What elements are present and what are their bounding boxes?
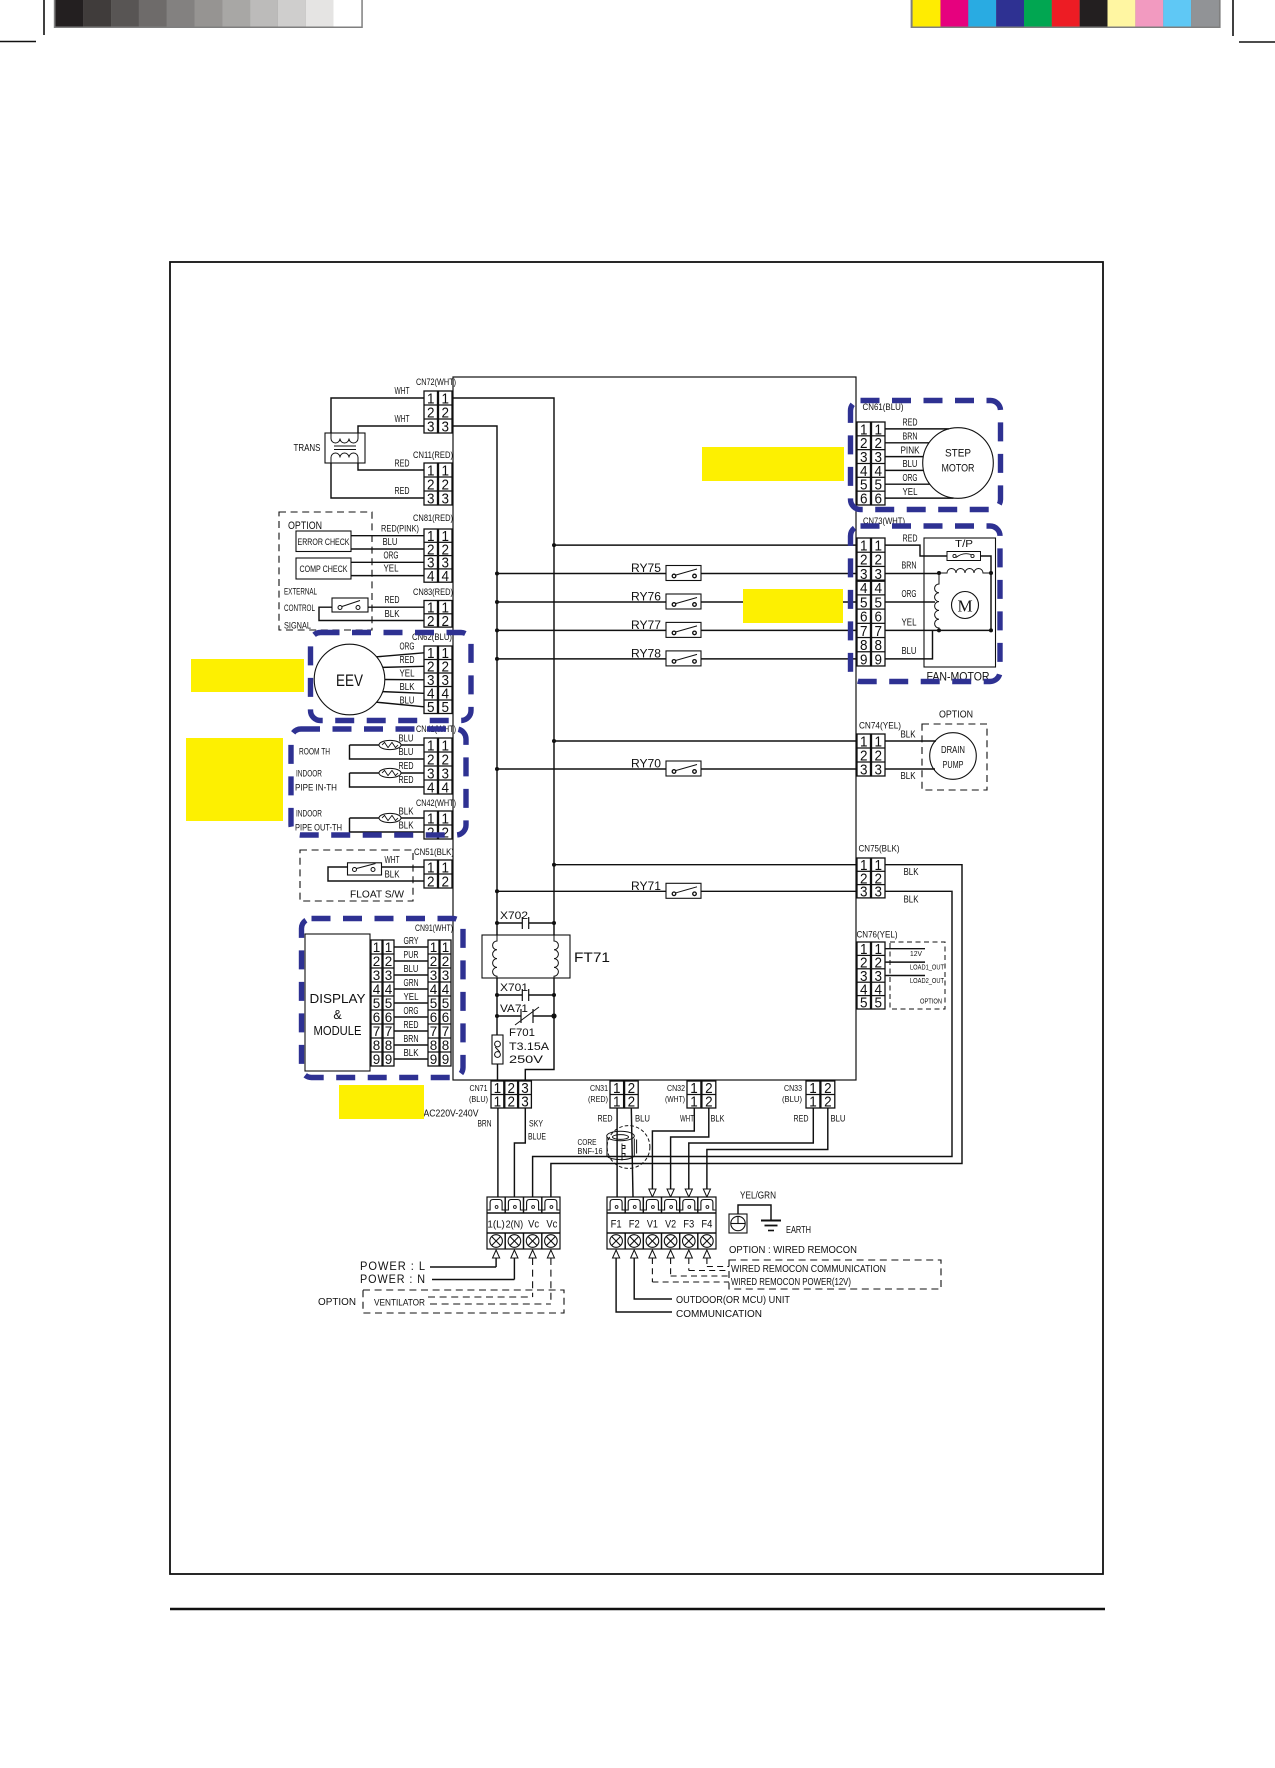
connector CN72 (416, 377, 456, 435)
svg-text:CN81(RED): CN81(RED) (413, 513, 453, 523)
label PUR display (404, 949, 419, 961)
svg-text:ERROR CHECK: ERROR CHECK (298, 537, 351, 547)
label OUTDOOR(OR MCU) UNIT (676, 1294, 791, 1306)
svg-text:FLOAT S/W: FLOAT S/W (350, 889, 404, 901)
component outline thermistors (blue dashed) (291, 729, 466, 835)
svg-text:RED: RED (395, 458, 410, 470)
fan motor main winding (937, 569, 993, 576)
label YEL CN81-4 (384, 563, 399, 575)
svg-text:RY70: RY70 (631, 759, 661, 771)
svg-text:OPTION: OPTION (318, 1296, 356, 1308)
svg-text:PUR: PUR (404, 949, 419, 961)
connector CN51 (414, 847, 454, 890)
wire display BLU (394, 974, 428, 976)
wire CN74-3 BLK to pump (885, 769, 935, 782)
svg-text:7: 7 (373, 1024, 381, 1039)
capacitor X701 (495, 982, 556, 1001)
label PIPE IN-TH (295, 783, 337, 793)
svg-text:CN61(BLU): CN61(BLU) (863, 402, 904, 412)
highlight yellow fan motor (743, 589, 843, 623)
wire display GRN (394, 988, 428, 990)
indoor unit PCB outline (453, 377, 856, 1080)
label RED CN11-1 (395, 458, 410, 470)
svg-text:2: 2 (442, 954, 450, 969)
label POWER : N (360, 1274, 426, 1286)
line filter FT71 (482, 935, 610, 978)
svg-text:BLU: BLU (831, 1114, 846, 1125)
svg-text:AC220V-240V: AC220V-240V (424, 1109, 479, 1120)
wire CN75-3 BLK to Vc3 (533, 891, 952, 1197)
label ORG display (404, 1005, 419, 1017)
svg-text:1: 1 (430, 940, 438, 955)
wire EEV to CN62-2 (383, 666, 424, 667)
label RED CN11-3 (395, 485, 410, 497)
label RED CN33 (794, 1114, 809, 1125)
block ERROR CHECK (296, 531, 351, 552)
DRAIN PUMP circle (930, 733, 977, 780)
svg-text:(BLU): (BLU) (782, 1094, 802, 1104)
svg-text:BLK: BLK (400, 681, 415, 693)
wire F3 remocon dashed (685, 1250, 729, 1271)
svg-text:(WHT): (WHT) (665, 1094, 685, 1104)
svg-text:CORE: CORE (578, 1138, 597, 1147)
wire CN61 PINK to step motor (885, 456, 923, 458)
svg-text:WHT: WHT (385, 854, 400, 866)
svg-text:BLU: BLU (902, 645, 917, 657)
component outline fan motor (blue dashed) (851, 526, 1001, 682)
label WIRED REMOCON POWER(12V) (731, 1276, 851, 1288)
svg-text:X702: X702 (500, 910, 528, 922)
svg-text:Vc: Vc (546, 1219, 557, 1231)
svg-text:CN42(WHT): CN42(WHT) (416, 798, 456, 808)
svg-text:(BLU): (BLU) (469, 1094, 488, 1104)
wire FT71 left leg down (496, 978, 498, 1035)
svg-text:M: M (957, 597, 972, 616)
svg-text:YEL: YEL (903, 486, 918, 498)
svg-text:4: 4 (373, 982, 381, 997)
svg-text:BLU: BLU (404, 963, 419, 975)
wire CN76-2 LOAD1_OUT (885, 961, 925, 963)
wire switch to CN83-1 (368, 606, 424, 608)
svg-text:3: 3 (860, 884, 868, 901)
label WHT CN51-1 (385, 854, 400, 866)
svg-text:EXTERNAL: EXTERNAL (284, 587, 317, 597)
svg-text:CN72(WHT): CN72(WHT) (416, 377, 456, 387)
thermistor ROOM TH loop (350, 740, 425, 759)
svg-text:2: 2 (385, 954, 393, 969)
wire CN61 YEL to step motor (885, 497, 954, 499)
svg-text:4: 4 (442, 982, 450, 997)
wire display GRY (394, 946, 428, 948)
wire EEV to CN62-4 (383, 692, 424, 694)
terminal block power 1(L) 2(N) Vc Vc (487, 1197, 560, 1249)
svg-text:3: 3 (427, 418, 435, 435)
svg-text:ORG: ORG (404, 1005, 419, 1017)
svg-text:VA71: VA71 (500, 1003, 528, 1015)
svg-text:ORG: ORG (902, 588, 917, 600)
svg-text:WIRED REMOCON COMMUNICATION: WIRED REMOCON COMMUNICATION (731, 1263, 886, 1275)
label OPTION (288, 520, 322, 532)
wire EEV to CN62-5 (377, 702, 425, 707)
svg-text:INDOOR: INDOOR (296, 769, 322, 779)
dashed box CN76 option (890, 942, 945, 1009)
svg-text:CN11(RED): CN11(RED) (413, 450, 453, 460)
color calibration bar (911, 0, 1221, 28)
svg-text:1: 1 (373, 940, 381, 955)
wire EEV to CN62-3 (385, 679, 424, 681)
label GRY display (404, 935, 419, 947)
wire CN71-1 BRN to terminal 1(L) (488, 1108, 505, 1210)
svg-text:9: 9 (442, 1052, 450, 1067)
svg-text:BLK: BLK (404, 1047, 419, 1059)
EEV motor circle (314, 644, 385, 715)
svg-text:F3: F3 (683, 1219, 694, 1231)
label BLK display (404, 1047, 419, 1059)
svg-text:COMMUNICATION: COMMUNICATION (676, 1308, 762, 1320)
wire CN74-1 BLK to pump (885, 729, 936, 742)
wire F2 to OUTDOOR UNIT (631, 1250, 672, 1299)
svg-text:4: 4 (430, 982, 438, 997)
svg-text:8: 8 (385, 1038, 393, 1053)
svg-text:ROOM TH: ROOM TH (299, 747, 330, 757)
wire display PUR (394, 960, 428, 962)
label ROOM TH (299, 747, 330, 757)
label 12V (910, 949, 922, 958)
earth plug symbol (729, 1214, 747, 1233)
component outline EEV (blue dashed) (311, 633, 472, 721)
relay RY70 (495, 759, 857, 777)
label BLU display (404, 963, 419, 975)
svg-text:7: 7 (442, 1024, 450, 1039)
grayscale calibration bar (54, 0, 363, 28)
label WHT CN72-1 (395, 385, 410, 397)
wire CN73-3 BRN to winding (885, 560, 939, 574)
wire CN73-9 BLU (885, 630, 933, 659)
wire V2 remocon dashed (667, 1250, 729, 1276)
wire ERROR CHECK to CN81-1 (351, 535, 424, 537)
svg-text:3: 3 (442, 418, 450, 435)
wire CN32-2 BLK to V2 (667, 1108, 709, 1197)
label GRN display (404, 977, 419, 989)
label YEL/GRN (740, 1191, 776, 1202)
label RED CN61 (903, 417, 918, 429)
label BRN display (404, 1033, 419, 1045)
connector CN81 (413, 513, 453, 585)
svg-text:RED: RED (598, 1114, 613, 1125)
svg-text:BLUE: BLUE (528, 1132, 546, 1143)
svg-text:3: 3 (385, 968, 393, 983)
svg-text:4: 4 (442, 779, 450, 796)
svg-text:F2: F2 (629, 1219, 640, 1231)
label RED CN41 (399, 760, 414, 772)
label POWER : L (360, 1261, 426, 1273)
wire POWER N (432, 1250, 518, 1280)
wire FT71 right leg down (553, 978, 555, 1016)
wire TRANS primary to CN72-1 (331, 398, 452, 433)
label BLK CN62 (400, 681, 415, 693)
wire F4 remocon dashed (703, 1250, 729, 1267)
label BRN CN61 (903, 431, 918, 443)
label RED CN62 (400, 654, 415, 666)
label BLK CN51-2 (385, 869, 400, 881)
svg-text:RY76: RY76 (631, 592, 661, 604)
svg-text:6: 6 (385, 1010, 393, 1025)
svg-text:CN32: CN32 (667, 1083, 685, 1093)
svg-text:RED: RED (385, 594, 400, 606)
svg-text:CN74(YEL): CN74(YEL) (859, 721, 901, 731)
svg-text:4: 4 (427, 568, 435, 585)
label WHT CN72-3 (395, 413, 410, 425)
svg-text:BRN: BRN (903, 431, 918, 443)
float switch (348, 863, 382, 875)
svg-text:5: 5 (442, 699, 450, 716)
label LOAD1_OUT (910, 963, 944, 972)
label EARTH (786, 1224, 811, 1236)
svg-text:STEP: STEP (945, 448, 971, 460)
connector CN83 (413, 587, 453, 630)
svg-text:BLK: BLK (904, 866, 919, 878)
svg-text:5: 5 (373, 996, 381, 1011)
svg-text:YEL: YEL (404, 991, 419, 1003)
wire CN61 RED to step motor (885, 428, 949, 430)
svg-text:V1: V1 (647, 1219, 658, 1231)
connector CN75 (857, 844, 900, 901)
label COMMUNICATION (676, 1308, 762, 1320)
registration mark top-left (0, 0, 44, 42)
relay RY78 (495, 648, 857, 666)
svg-text:F701: F701 (509, 1027, 535, 1039)
svg-text:OUTDOOR(OR MCU) UNIT: OUTDOOR(OR MCU) UNIT (676, 1294, 791, 1306)
svg-text:POWER : N: POWER : N (360, 1274, 426, 1286)
svg-text:PIPE OUT-TH: PIPE OUT-TH (295, 823, 342, 833)
label OPTION : WIRED REMOCON (729, 1244, 857, 1256)
label OPTION CN76 (920, 997, 942, 1006)
fan motor aux winding (935, 573, 939, 630)
svg-text:2: 2 (427, 613, 435, 630)
svg-text:BRN: BRN (902, 560, 917, 572)
svg-text:2: 2 (373, 954, 381, 969)
svg-text:YEL: YEL (384, 563, 399, 575)
svg-text:PUMP: PUMP (943, 760, 964, 771)
svg-text:BLU: BLU (635, 1114, 650, 1125)
svg-text:PINK: PINK (901, 444, 920, 456)
label BLK CN83-2 (385, 608, 400, 620)
label BLU CN81-2 (383, 536, 398, 548)
svg-text:BLK: BLK (904, 894, 919, 906)
label AC220V-240V (424, 1109, 479, 1120)
svg-text:TRANS: TRANS (294, 442, 321, 454)
svg-text:CN31: CN31 (590, 1083, 608, 1093)
connector CN62 (412, 632, 452, 716)
svg-text:BLU: BLU (903, 458, 918, 470)
svg-text:EEV: EEV (336, 671, 364, 690)
wire fuse to CN71-1 (497, 1064, 499, 1081)
wire POWER L (430, 1250, 500, 1267)
svg-text:COMP CHECK: COMP CHECK (300, 564, 349, 574)
capacitor X702 (495, 910, 556, 929)
wire CN61 BLU to step motor (885, 469, 924, 471)
svg-text:2: 2 (442, 873, 450, 890)
svg-text:CN91(WHT): CN91(WHT) (415, 923, 453, 933)
wire COMP CHECK to CN81-3 (351, 561, 424, 563)
svg-text:6: 6 (860, 490, 868, 507)
diagram border frame (170, 262, 1103, 1574)
label BLK CN32 (711, 1114, 726, 1125)
label YEL CN62 (400, 668, 415, 680)
svg-text:SIGNAL: SIGNAL (284, 621, 311, 631)
svg-text:6: 6 (430, 1010, 438, 1025)
svg-text:8: 8 (373, 1038, 381, 1053)
label PIPE OUT-TH (295, 823, 342, 833)
wire display RED (394, 1030, 428, 1032)
svg-text:3: 3 (430, 968, 438, 983)
svg-text:2(N): 2(N) (506, 1219, 524, 1231)
varistor VA71 (495, 1003, 557, 1025)
wire COMP CHECK to CN81-4 (351, 575, 424, 577)
connector CN11 (413, 450, 453, 507)
svg-text:BLK: BLK (399, 806, 414, 818)
svg-text:PIPE IN-TH: PIPE IN-TH (295, 783, 337, 793)
svg-text:CN83(RED): CN83(RED) (413, 587, 453, 597)
label ORG CN61 (903, 472, 918, 484)
connector CN71 (469, 1080, 531, 1111)
svg-text:OPTION : WIRED REMOCON: OPTION : WIRED REMOCON (729, 1244, 857, 1256)
wire display ORG (394, 1016, 428, 1018)
svg-text:RED(PINK): RED(PINK) (381, 524, 419, 534)
label INDOOR (pipe out) (296, 809, 322, 819)
label SIGNAL (284, 621, 311, 631)
wire ERROR CHECK to CN81-2 (351, 548, 424, 550)
svg-text:RY75: RY75 (631, 563, 661, 575)
svg-text:BRN: BRN (478, 1119, 492, 1130)
label RED CN31 (598, 1114, 613, 1125)
label RED(PINK) (381, 524, 419, 534)
wire CN73-5 ORG tap (885, 588, 935, 602)
svg-text:12V: 12V (910, 949, 922, 958)
dashed box OPTION drain pump (922, 724, 987, 790)
svg-text:3: 3 (875, 884, 883, 901)
component outline display (blue dashed) (302, 919, 464, 1078)
thermal protector T/P (947, 538, 981, 561)
label WIRED REMOCON COMMUNICATION (731, 1263, 886, 1275)
svg-text:3: 3 (373, 968, 381, 983)
svg-text:X701: X701 (500, 982, 528, 994)
svg-text:FT71: FT71 (574, 949, 610, 965)
label YEL CN61 (903, 486, 918, 498)
svg-text:2: 2 (442, 613, 450, 630)
wire CN73-1 RED to T/P (885, 533, 947, 557)
svg-text:RY78: RY78 (631, 648, 661, 660)
svg-text:4: 4 (442, 568, 450, 585)
svg-text:2: 2 (427, 873, 435, 890)
svg-text:8: 8 (442, 1038, 450, 1053)
svg-text:MOTOR: MOTOR (942, 463, 975, 475)
label BRN (478, 1119, 492, 1130)
svg-text:5: 5 (427, 699, 435, 716)
relay RY71 (495, 881, 857, 899)
svg-text:7: 7 (430, 1024, 438, 1039)
svg-text:5: 5 (860, 995, 868, 1012)
svg-text:3: 3 (427, 490, 435, 507)
block DISPLAY & MODULE (305, 934, 370, 1071)
fuse F701 (492, 1027, 550, 1066)
svg-text:POWER : L: POWER : L (360, 1261, 426, 1273)
highlight yellow step motor (702, 447, 844, 481)
highlight yellow display (339, 1085, 424, 1119)
label INDOOR (pipe in) (296, 769, 322, 779)
svg-text:RED: RED (903, 533, 918, 545)
svg-text:LOAD2_OUT: LOAD2_OUT (910, 976, 944, 985)
svg-text:YEL: YEL (400, 668, 415, 680)
terminal block communication F1 F2 V1 V2 F3 F4 (607, 1197, 716, 1249)
svg-text:OPTION: OPTION (920, 997, 942, 1006)
svg-text:6: 6 (373, 1010, 381, 1025)
svg-text:INDOOR: INDOOR (296, 809, 322, 819)
label BLU CN31 (635, 1114, 650, 1125)
svg-text:Vc: Vc (528, 1219, 539, 1231)
label ORG CN62 (400, 641, 415, 653)
wire CN31-2 BLU to F2 (631, 1108, 633, 1197)
label ORG CN81-3 (384, 549, 399, 561)
svg-text:8: 8 (430, 1038, 438, 1053)
svg-text:3: 3 (875, 761, 883, 778)
wire CN61 BRN to step motor (885, 442, 929, 444)
label OPTION drain pump (939, 709, 973, 721)
svg-text:5: 5 (430, 996, 438, 1011)
block COMP CHECK (296, 558, 351, 579)
svg-text:CN51(BLK): CN51(BLK) (414, 847, 454, 857)
wire bus B to CN75-1 (552, 863, 857, 867)
wire float switch return to CN51-2 (328, 867, 424, 881)
wire CN76-3 LOAD2_OUT (885, 975, 925, 977)
label YEL display (404, 991, 419, 1003)
label RED CN41 (399, 774, 414, 786)
wire CN31-1 RED to F1 (616, 1108, 618, 1197)
label BLK CN42-2 (399, 820, 414, 832)
footer rule (170, 1608, 1105, 1611)
wire T/P to main winding (981, 556, 992, 630)
svg-text:WHT: WHT (395, 385, 410, 397)
svg-text:DRAIN: DRAIN (941, 745, 965, 756)
dashed box WIRED REMOCON (729, 1260, 941, 1289)
STEP MOTOR circle (923, 428, 994, 499)
svg-text:WHT: WHT (395, 413, 410, 425)
svg-text:2: 2 (507, 1094, 515, 1111)
wire TRANS primary to CN72-3 (358, 426, 452, 433)
svg-text:BLU: BLU (400, 695, 415, 707)
svg-text:CN76(YEL): CN76(YEL) (857, 930, 898, 940)
wire bus B to CN73-1 (552, 543, 857, 547)
svg-text:BLK: BLK (711, 1114, 726, 1125)
svg-text:1: 1 (385, 940, 393, 955)
wire F1 to COMMUNICATION (613, 1250, 673, 1312)
svg-text:RY77: RY77 (631, 620, 661, 632)
svg-text:OPTION: OPTION (288, 520, 322, 532)
connector CN31 (588, 1080, 638, 1111)
dashed box OPTION (error/comp check) (279, 512, 372, 630)
svg-text:WIRED REMOCON POWER(12V): WIRED REMOCON POWER(12V) (731, 1276, 851, 1288)
wire bus B to CN71-3 (525, 1016, 554, 1081)
label BLU CN61 (903, 458, 918, 470)
svg-text:BLU: BLU (383, 536, 398, 548)
label CONTROL (284, 603, 315, 613)
svg-text:F4: F4 (701, 1219, 712, 1231)
svg-text:(RED): (RED) (588, 1094, 608, 1104)
wire bus B from CN72-1 (452, 398, 554, 935)
svg-text:T/P: T/P (955, 538, 973, 550)
svg-text:CN75(BLK): CN75(BLK) (859, 844, 900, 854)
svg-text:ORG: ORG (903, 472, 918, 484)
